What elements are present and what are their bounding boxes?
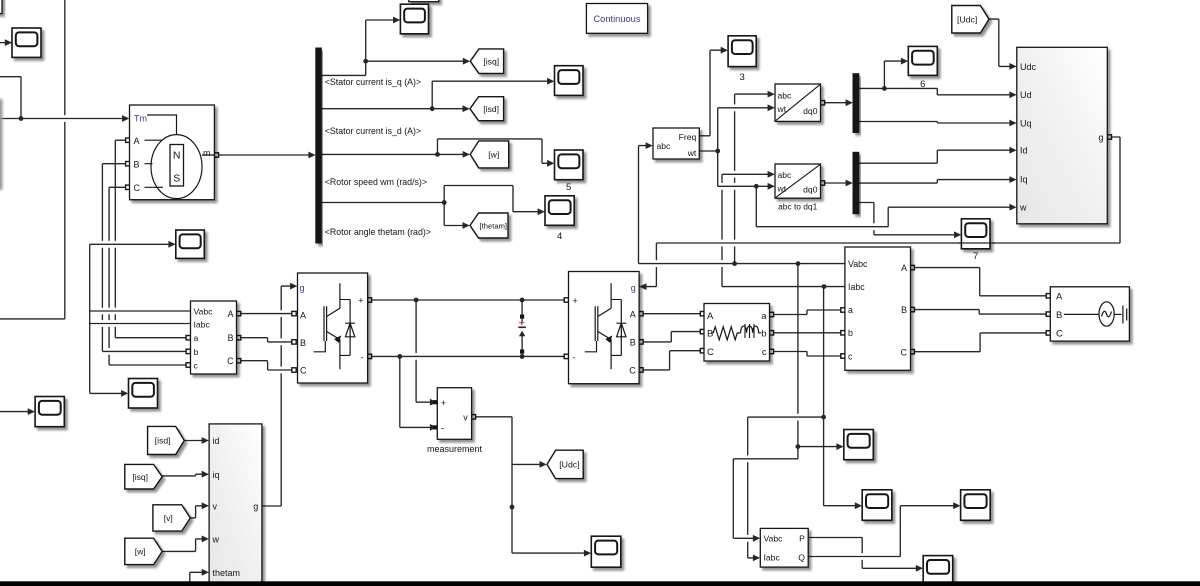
svg-text:4: 4 — [557, 231, 562, 242]
svg-text:+: + — [358, 296, 363, 306]
scope 1 (stator current is_q) — [400, 4, 428, 34]
wire: Tm torque input with branch from left edge — [0, 77, 129, 122]
svg-text:Ud: Ud — [1020, 90, 1032, 100]
scope (far left) — [35, 397, 64, 427]
svg-text:[w]: [w] — [488, 150, 499, 160]
svg-text:N: N — [173, 150, 181, 162]
svg-text:A: A — [901, 263, 907, 273]
svg-text:w: w — [212, 535, 220, 545]
svg-text:C: C — [300, 365, 307, 375]
svg-text:dq0: dq0 — [803, 106, 818, 116]
svg-text:A: A — [630, 309, 636, 319]
svg-text:B: B — [630, 337, 636, 347]
wire: Vabc branch down to scope and PQ Vabc — [733, 264, 843, 542]
goto tag [isq] — [470, 49, 503, 73]
svg-text:a: a — [761, 311, 767, 322]
scope (grid Vabc) — [844, 430, 874, 460]
demux 1 — [853, 74, 859, 133]
scope 3 (PLL frequency) — [728, 36, 756, 67]
svg-text:[v]: [v] — [164, 513, 173, 523]
wire: negative rail to voltage measurement - — [400, 356, 437, 430]
svg-text:A: A — [228, 309, 234, 319]
svg-text:C: C — [901, 347, 908, 357]
wire: machine A to measurement a — [115, 138, 190, 340]
svg-text:P: P — [799, 533, 805, 543]
svg-text:B: B — [901, 305, 907, 315]
svg-text:3: 3 — [740, 72, 745, 83]
from tag [w] — [125, 538, 162, 564]
wire: wt branch down to controller w input — [756, 186, 1016, 226]
svg-text:wt: wt — [687, 148, 697, 158]
svg-text:Vabc: Vabc — [764, 533, 784, 543]
wire: thetam input from bottom edge — [190, 569, 209, 586]
svg-text:b: b — [194, 347, 199, 357]
svg-text:abc: abc — [778, 170, 793, 180]
wire: controller g output to rectifier gate — [262, 283, 297, 506]
wire: inverter A to RL branch A — [639, 312, 705, 316]
abc to dq0 transform block 2 (abc to dq1) — [775, 164, 821, 212]
grid-side controller subsystem — [1017, 47, 1108, 224]
svg-text:B: B — [134, 159, 140, 169]
wire: inverter B to RL branch B — [639, 329, 705, 344]
svg-text:wt: wt — [777, 183, 787, 193]
svg-text:v: v — [213, 502, 218, 512]
svg-text:A: A — [134, 136, 140, 146]
wire: Iabc net to abc-to-dq1 abc — [722, 171, 845, 289]
abc to dq0 transform block 1 — [775, 84, 821, 121]
svg-text:a: a — [194, 333, 199, 343]
wire: bus signal wm to goto [w] and scope 5 — [321, 139, 554, 167]
svg-text:S: S — [173, 173, 180, 185]
svg-text:id: id — [213, 436, 220, 446]
PLL block (abc to Freq, wt) — [653, 128, 699, 159]
svg-text:[thetam]: [thetam] — [480, 222, 507, 231]
wire: into far-left scope — [0, 408, 35, 415]
from tag [isd] — [148, 426, 185, 454]
svg-text:B: B — [1056, 310, 1062, 321]
wire: PLL wt output to both dq transform wt inputs — [699, 104, 775, 189]
svg-text:B: B — [228, 333, 234, 343]
svg-text:v: v — [463, 413, 468, 423]
scope 5 (rotor speed) — [555, 150, 584, 180]
svg-text:Uq: Uq — [1020, 118, 1032, 128]
machine-side controller subsystem — [209, 424, 262, 586]
taskbar strip at bottom — [0, 581, 1200, 586]
svg-text:-: - — [573, 353, 576, 363]
svg-text:w: w — [1019, 203, 1027, 213]
wire: demux1 Ud to controller with branch to scope 6 — [859, 58, 1017, 98]
svg-text:g: g — [631, 283, 636, 293]
svg-text:g: g — [300, 283, 305, 293]
wire: measurement A to rectifier A — [236, 311, 296, 315]
svg-text:c: c — [194, 361, 199, 371]
partial block at top-left corner — [0, 0, 2, 14]
wire: PQ P output to scope — [808, 538, 923, 572]
svg-text:7: 7 — [973, 251, 978, 262]
wire: g net overlay across scope 7 — [958, 242, 995, 244]
svg-text:Iabc: Iabc — [764, 553, 781, 563]
svg-text:[Udc]: [Udc] — [559, 460, 579, 470]
scope 2 (stator current is_d) — [555, 66, 584, 96]
wire: bus signal is_q to scope 1 and goto [isq] — [321, 17, 470, 76]
svg-text:[isd]: [isd] — [155, 436, 171, 446]
svg-text:abc: abc — [778, 90, 793, 100]
wire: from [Udc] to controller Udc input — [989, 19, 1016, 70]
svg-text:+: + — [573, 296, 578, 306]
powergui block (Continuous) — [586, 4, 647, 34]
demux 2 — [853, 152, 859, 213]
three-phase voltage source block — [1050, 287, 1129, 341]
from tag [Udc] — [952, 6, 989, 34]
wire: abc-to-dq1 output to demux 2 — [820, 180, 853, 187]
svg-text:C: C — [707, 347, 714, 358]
wire: measurement B to rectifier B — [236, 336, 296, 345]
wire: DC negative rail — [367, 354, 568, 359]
svg-text:g: g — [253, 502, 258, 512]
wire: bus signal thetam to goto [thetam] and scope 4 — [321, 186, 545, 229]
svg-text:B: B — [300, 338, 306, 348]
wire: measurement Vabc output to scope — [90, 241, 191, 324]
svg-text:c: c — [762, 347, 767, 358]
svg-text:[Udc]: [Udc] — [957, 14, 977, 24]
from tag [v] — [153, 505, 190, 531]
scope 4 (rotor angle) — [545, 196, 574, 226]
svg-text:<Rotor speed wm (rad/s)>: <Rotor speed wm (rad/s)> — [325, 177, 427, 187]
wire: positive rail to voltage measurement + — [416, 300, 437, 406]
svg-text:A: A — [1056, 292, 1063, 303]
svg-text:C: C — [629, 365, 636, 375]
wire: V-I measurement B to source B — [910, 307, 1051, 316]
svg-text:a: a — [848, 305, 853, 315]
wire: bus signal is_d to goto [isd] and scope 2 — [321, 78, 554, 112]
DC link capacitor C1 — [518, 300, 526, 357]
svg-text:<Rotor angle thetam (rad)>: <Rotor angle thetam (rad)> — [325, 227, 431, 237]
wire: machine B to measurement b — [102, 162, 190, 354]
scope 6 (Udq) — [908, 46, 937, 75]
svg-text:<Stator current is_q (A)>: <Stator current is_q (A)> — [325, 77, 421, 87]
bus selector — [316, 48, 322, 243]
svg-text:Iabc: Iabc — [848, 282, 865, 292]
wire: abc-to-dq0 output to demux 1 — [820, 99, 853, 106]
svg-text:iq: iq — [213, 470, 220, 480]
scope (active power P) — [923, 556, 953, 586]
wire: V-I measurement C to source C — [910, 331, 1051, 354]
wire: V-I measurement A to source A — [910, 265, 1051, 298]
svg-text:6: 6 — [920, 79, 925, 90]
wire: RL branch a to V-I measurement a — [769, 308, 845, 317]
universal bridge converter 2 (inverter) — [569, 272, 640, 384]
wire: PQ Q output to scope — [808, 502, 960, 556]
svg-text:Vabc: Vabc — [848, 259, 868, 269]
svg-text:C: C — [1056, 329, 1063, 340]
from tag [isq] — [125, 464, 162, 489]
svg-text:Iabc: Iabc — [194, 319, 211, 329]
svg-text:c: c — [848, 351, 853, 361]
svg-text:measurement: measurement — [427, 444, 483, 454]
svg-text:wt: wt — [777, 104, 787, 114]
svg-text:abc to dq1: abc to dq1 — [778, 202, 817, 212]
scope (stator Vabc) — [176, 230, 205, 258]
scope (left top) — [12, 28, 41, 57]
svg-text:C: C — [134, 183, 141, 193]
svg-text:+: + — [441, 398, 446, 408]
svg-text:thetam: thetam — [213, 568, 241, 578]
svg-text:B: B — [707, 329, 713, 340]
wire: Iabc branch down to scope and PQ Iabc — [748, 287, 862, 562]
svg-text:Tm: Tm — [134, 113, 147, 123]
svg-text:[w]: [w] — [135, 547, 146, 557]
svg-text:Continuous: Continuous — [593, 14, 640, 24]
svg-text:g: g — [1098, 132, 1103, 142]
goto tag [thetam] — [470, 213, 508, 238]
wire: from [isq] to controller iq input — [162, 471, 209, 478]
universal bridge converter 1 (rectifier) — [298, 273, 368, 383]
svg-text:abc: abc — [657, 141, 672, 151]
DC voltage measurement block — [427, 388, 483, 454]
PQ power measurement block — [760, 528, 808, 567]
svg-text:5: 5 — [566, 182, 571, 193]
goto tag [Udc] — [547, 450, 583, 478]
svg-text:C: C — [227, 356, 234, 366]
wire: vertical net from top edge to left edge — [0, 0, 65, 319]
three-phase measurement block (machine side) — [191, 301, 237, 374]
wire: demux2 Id to controller — [859, 147, 1017, 163]
svg-text:A: A — [707, 311, 714, 322]
scope (DC voltage) — [591, 536, 621, 567]
wire: measured Udc to goto [Udc] and scope — [471, 415, 591, 557]
wire: DC positive rail — [367, 298, 568, 303]
wire: from [isd] to controller id input — [185, 437, 209, 444]
svg-text:Iq: Iq — [1020, 175, 1028, 185]
wire: demux1 Uq to controller — [859, 120, 1017, 127]
goto tag [w] — [470, 141, 509, 168]
wire: controller g output to inverter gate (long net) — [639, 135, 1120, 290]
scope (stator Iabc) — [129, 379, 158, 409]
three-phase V-I measurement block (grid side) — [845, 247, 911, 370]
svg-text:[isd]: [isd] — [483, 104, 499, 114]
svg-text:b: b — [761, 329, 766, 340]
svg-text:-: - — [361, 353, 364, 363]
svg-text:Freq: Freq — [679, 132, 697, 142]
svg-text:Q: Q — [798, 553, 805, 563]
svg-text:Id: Id — [1020, 146, 1028, 156]
wire: from [w] to controller w input — [162, 536, 209, 552]
wire: machine C to measurement c — [109, 185, 190, 367]
wire: PLL Freq output to scope 3 — [699, 47, 728, 136]
wire: RL branch c to V-I measurement c — [769, 349, 845, 358]
partial block shadow at left edge — [0, 99, 3, 190]
scope above scope 1 (cut off at top edge) — [409, 0, 439, 2]
three-phase series RL branch block — [704, 304, 770, 362]
svg-text:[isq]: [isq] — [483, 56, 499, 66]
wire: RL branch b to V-I measurement b — [769, 331, 845, 335]
PMSM machine block — [130, 105, 215, 200]
scope (grid Iabc) — [862, 490, 892, 521]
svg-text:Vabc: Vabc — [194, 306, 214, 316]
svg-text:[isq]: [isq] — [132, 472, 148, 482]
wire: demux2 Iq to controller — [859, 176, 1017, 183]
wire: inverter C to RL branch C — [639, 349, 705, 373]
svg-text:A: A — [300, 310, 306, 320]
wire: measurement C to rectifier C — [236, 359, 296, 373]
svg-text:Udc: Udc — [1020, 62, 1037, 72]
wire: from [v] to controller v input — [190, 502, 209, 518]
wire: Vabc net to PLL abc and abc-to-dq0 abc — [639, 91, 845, 266]
goto tag [isd] — [470, 97, 504, 121]
scope (reactive power Q) — [961, 490, 991, 521]
svg-text:b: b — [848, 328, 853, 338]
wire: demux2 third output to scope 7 — [859, 203, 961, 239]
scope 7 — [961, 219, 990, 249]
svg-text:-: - — [441, 423, 444, 434]
svg-text:dq0: dq0 — [803, 184, 818, 194]
svg-text:m: m — [203, 148, 211, 158]
wire: measurement Iabc output to scope — [90, 324, 191, 397]
wire: machine m output to bus selector — [214, 152, 315, 159]
svg-text:<Stator current is_d (A)>: <Stator current is_d (A)> — [325, 126, 421, 136]
wire: into left-edge scope — [0, 39, 12, 46]
